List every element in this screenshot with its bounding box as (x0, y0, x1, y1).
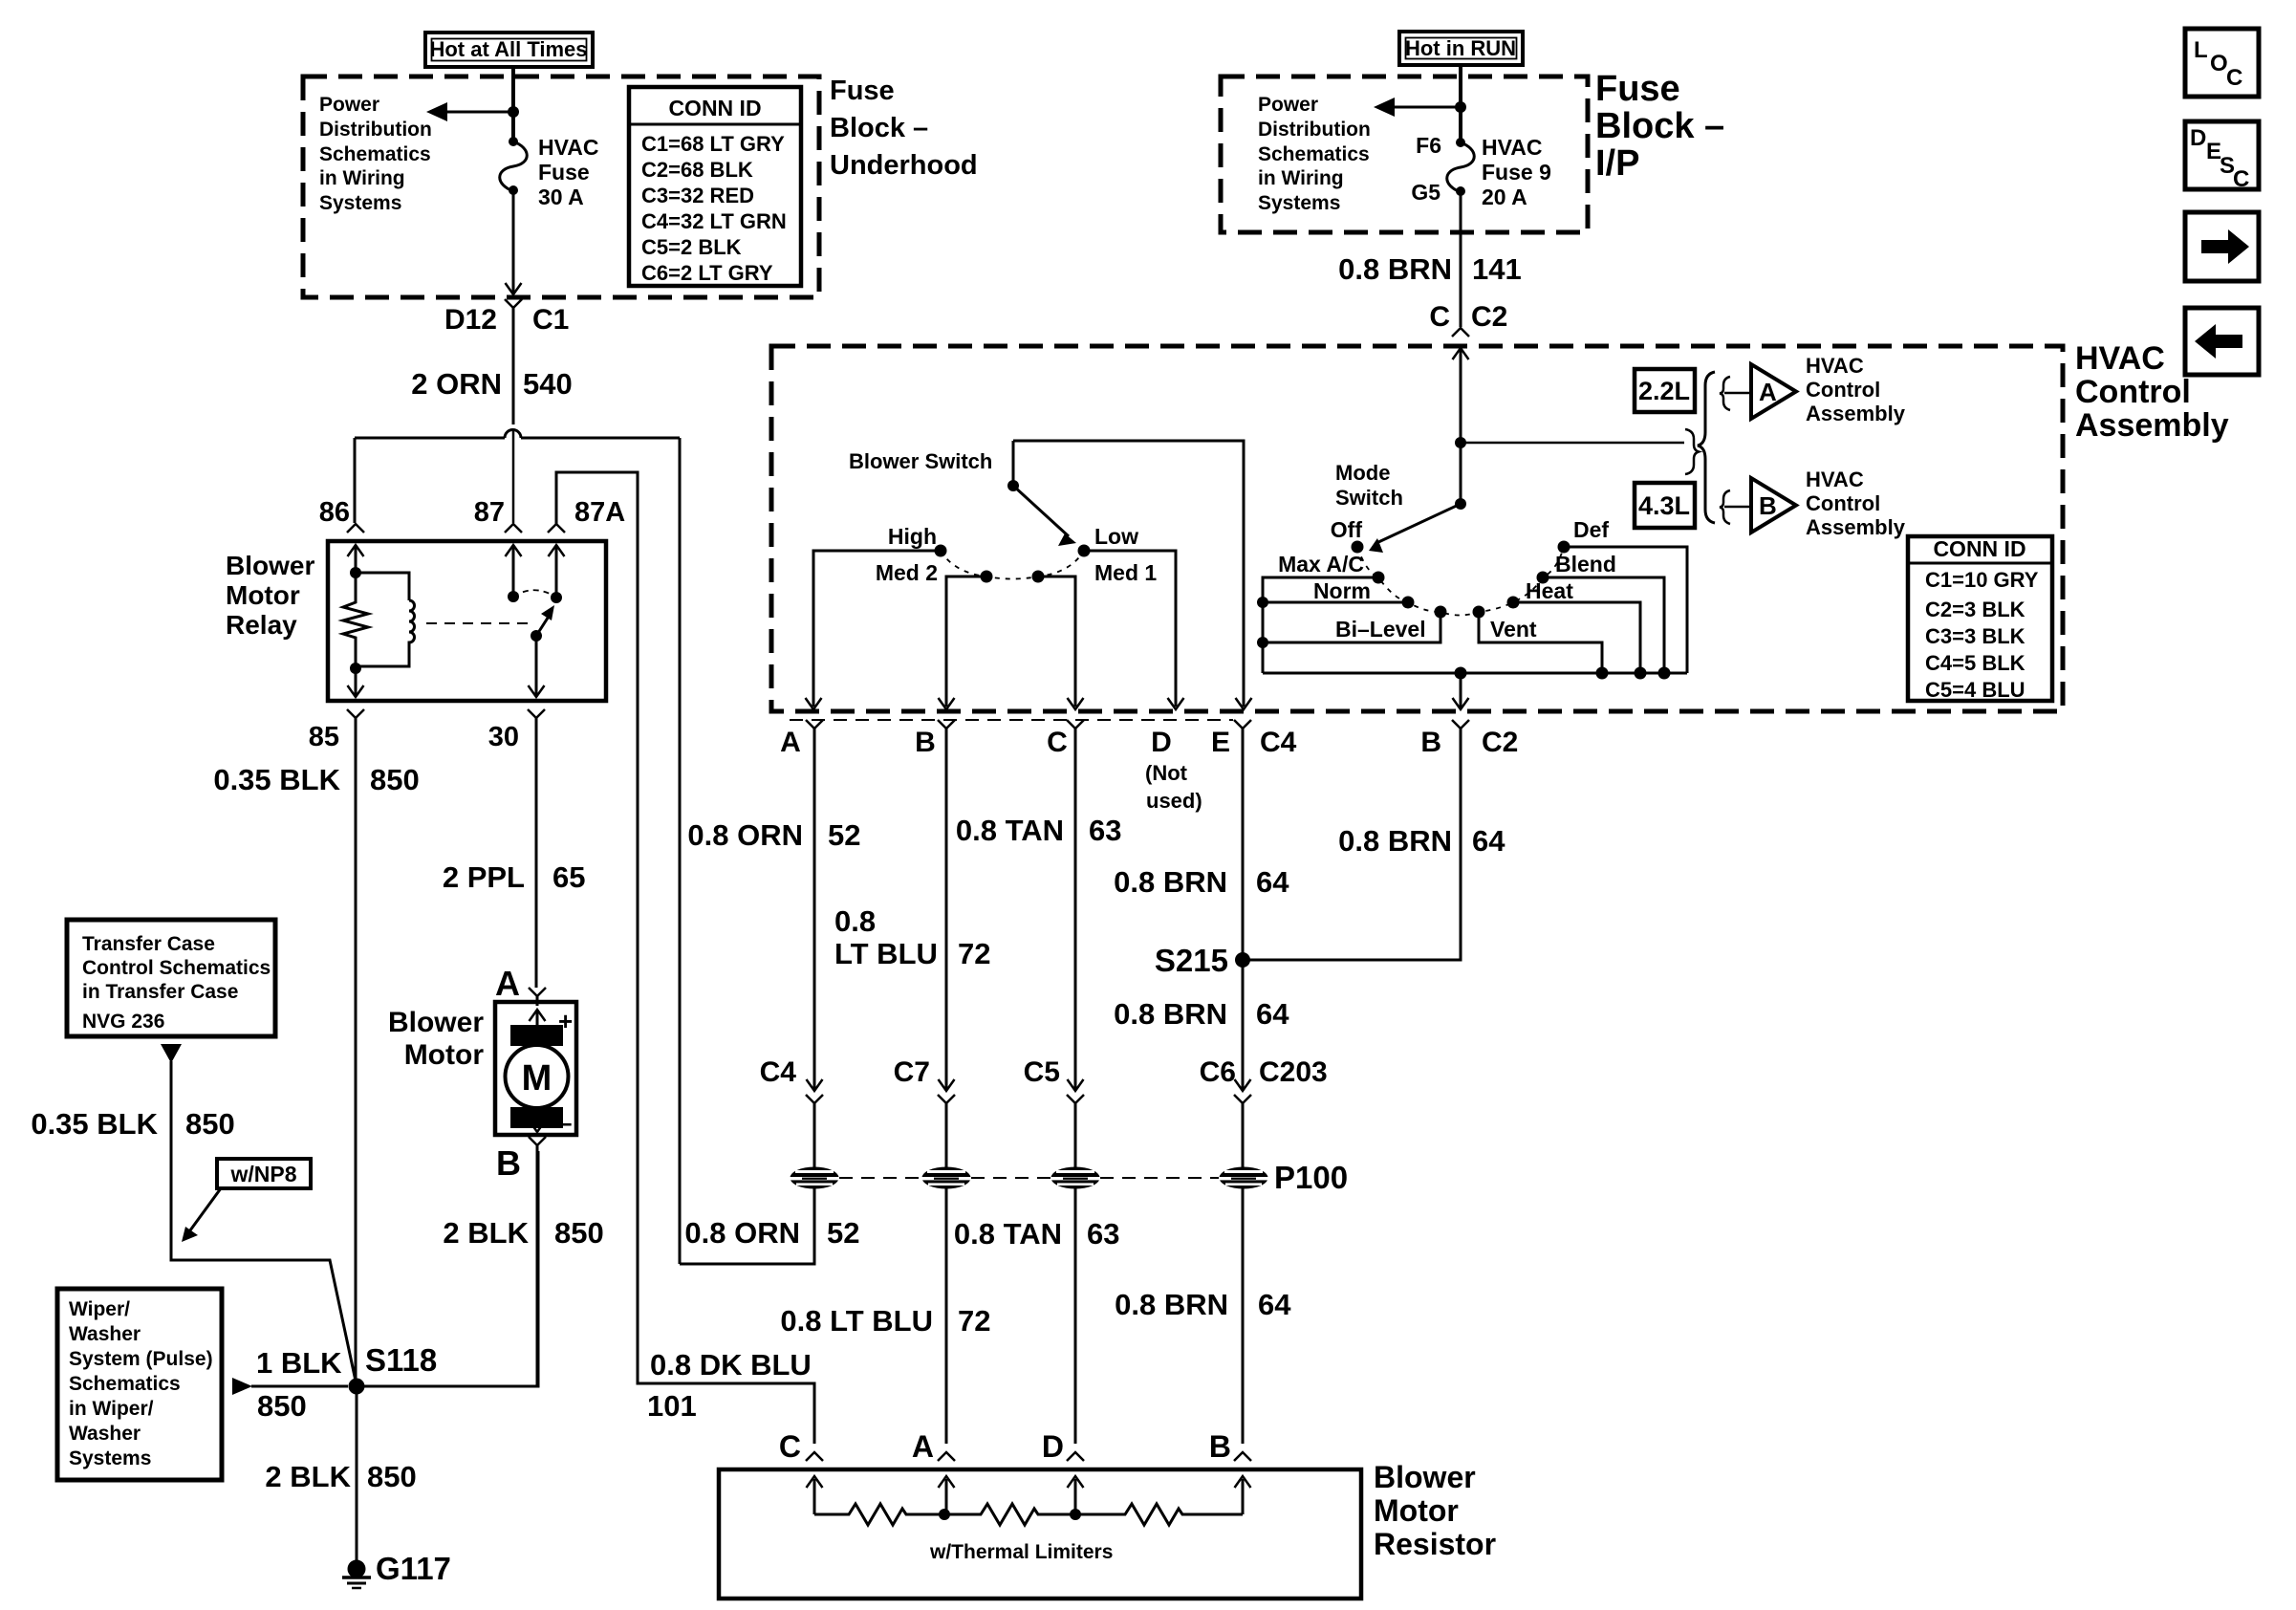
svg-text:Power: Power (1258, 94, 1318, 116)
wire Low to pin D (1084, 551, 1176, 707)
motor brush top (510, 1025, 563, 1046)
svg-text:0.8 BRN: 0.8 BRN (1115, 1288, 1228, 1321)
svg-text:Assembly: Assembly (1806, 515, 1906, 539)
small brace at triangle B (1720, 490, 1730, 524)
svg-text:Power: Power (319, 94, 379, 116)
connector C4 inline (807, 1079, 823, 1091)
node Bi-Level join (1257, 637, 1268, 648)
svg-text:P100: P100 (1274, 1160, 1348, 1195)
wire pin A down (0.8 ORN 52) (813, 729, 816, 1089)
motor brush bottom (510, 1107, 563, 1128)
svg-text:87: 87 (474, 497, 505, 528)
svg-text:1 BLK: 1 BLK (256, 1346, 342, 1380)
blower switch arm arrow (1013, 486, 1069, 536)
resistor R2 (944, 1504, 1075, 1525)
fuse HVAC Fuse 9 20A (1456, 138, 1465, 147)
node mode switch arm pivot (1455, 498, 1466, 510)
fuse F HVAC Fuse 30A (509, 137, 518, 146)
svg-text:System (Pulse): System (Pulse) (69, 1348, 213, 1370)
wire fuse output (512, 190, 515, 293)
wire Bi-Level to bus (1263, 612, 1440, 642)
svg-text:C1=68 LT GRY: C1=68 LT GRY (641, 132, 785, 156)
resistor R1 (814, 1504, 944, 1525)
buffer triangle B (1751, 478, 1796, 533)
resistor internal pin arrows (813, 1479, 816, 1514)
label box w/NP8 (217, 1159, 311, 1188)
node resistor taps (939, 1509, 950, 1520)
svg-text:B: B (1759, 491, 1777, 520)
svg-text:C6=2 LT GRY: C6=2 LT GRY (641, 261, 773, 285)
connector C/C2 (1452, 328, 1469, 337)
fuse block underhood dashed box (303, 76, 819, 297)
ground G117 (348, 1560, 366, 1578)
svg-text:0.8 TAN: 0.8 TAN (954, 1217, 1062, 1251)
svg-text:O: O (2210, 51, 2228, 76)
wire arrow to power distribution (right) (1389, 106, 1461, 109)
svg-text:C3=3 BLK: C3=3 BLK (1925, 624, 2025, 648)
wire to engine-option brace (1461, 442, 1684, 445)
svg-text:30: 30 (488, 722, 519, 752)
svg-text:Norm: Norm (1313, 578, 1371, 603)
svg-text:0.8 BRN: 0.8 BRN (1338, 824, 1452, 858)
connector dashed line C4 (790, 719, 1233, 721)
node Norm join (1257, 597, 1268, 608)
svg-text:52: 52 (828, 818, 860, 852)
svg-text:C5=2 BLK: C5=2 BLK (641, 235, 742, 259)
relay coil winding (356, 573, 409, 600)
wire feed from Hot in RUN (1459, 65, 1462, 140)
svg-text:Heat: Heat (1526, 578, 1573, 603)
wire A below splice to feed loop (680, 1188, 814, 1264)
svg-text:–: – (558, 1108, 572, 1137)
svg-text:C6: C6 (1200, 1056, 1236, 1088)
svg-text:C4=5 BLK: C4=5 BLK (1925, 651, 2025, 675)
pin D connector (resistor) (1067, 1452, 1084, 1461)
pin A connector (resistor) (938, 1452, 955, 1461)
node coil top (350, 567, 361, 578)
pin B connector (resistor) (1234, 1452, 1251, 1461)
svg-text:G117: G117 (376, 1551, 451, 1586)
svg-text:86: 86 (319, 497, 350, 528)
svg-text:C1=10 GRY: C1=10 GRY (1925, 568, 2039, 592)
relay pin 86 internal with up arrow (355, 545, 357, 573)
wire stub to buffer A (1724, 392, 1750, 395)
pin C connector (resistor) (806, 1452, 823, 1461)
wire blower switch feed (1013, 441, 1244, 707)
svg-text:C2: C2 (1482, 727, 1518, 758)
big opening brace (1698, 372, 1715, 523)
svg-text:LT BLU: LT BLU (834, 937, 938, 970)
wire arrow to power distribution schematics (442, 111, 513, 114)
pin B connector (HVAC C2) (1452, 720, 1469, 729)
wire stub to buffer B (1724, 506, 1750, 509)
arrow from wiper/washer (1 BLK 850 feed) (232, 1378, 252, 1395)
svg-text:A: A (780, 727, 801, 758)
svg-text:0.8 LT BLU: 0.8 LT BLU (780, 1304, 933, 1338)
node junction (I/P) (1455, 101, 1466, 113)
pin E connector (HVAC C4) (1234, 720, 1251, 729)
svg-text:Resistor: Resistor (1374, 1527, 1496, 1561)
svg-text:C: C (2233, 166, 2249, 192)
svg-text:Max A/C: Max A/C (1278, 552, 1364, 577)
svg-text:Wiper/: Wiper/ (69, 1298, 130, 1320)
svg-text:64: 64 (1256, 997, 1289, 1031)
svg-text:2 ORN: 2 ORN (411, 367, 502, 401)
wire pin B down (0.8 LT BLU 72) (945, 729, 948, 1089)
svg-text:in Wiring: in Wiring (1258, 167, 1344, 189)
svg-text:Hot at All Times: Hot at All Times (429, 37, 587, 61)
relay switch arm (536, 612, 552, 636)
relay pin 87 internal (512, 545, 515, 597)
svg-text:0.8: 0.8 (834, 904, 876, 938)
svg-text:M: M (522, 1058, 552, 1099)
svg-text:85: 85 (309, 722, 339, 752)
svg-text:72: 72 (958, 1304, 990, 1338)
svg-text:Block –: Block – (1595, 106, 1724, 146)
svg-text:C4=32 LT GRN: C4=32 LT GRN (641, 209, 787, 233)
wire E below splice (1242, 1188, 1245, 1444)
svg-text:850: 850 (367, 1460, 417, 1493)
pin C connector (HVAC C4) (1067, 720, 1084, 729)
svg-text:Relay: Relay (226, 610, 297, 640)
svg-text:0.8 BRN: 0.8 BRN (1338, 252, 1452, 286)
svg-text:C: C (2226, 65, 2242, 91)
wire Blend to bus (1543, 577, 1664, 673)
svg-text:65: 65 (552, 860, 585, 894)
svg-text:Med 1: Med 1 (1094, 560, 1157, 585)
wire C to splice (1074, 1103, 1077, 1168)
svg-text:Control: Control (1806, 491, 1880, 515)
svg-text:used): used) (1146, 789, 1202, 813)
svg-text:0.35 BLK: 0.35 BLK (213, 763, 340, 796)
arrow from w/NP8 box (187, 1188, 221, 1234)
svg-text:Def: Def (1573, 517, 1609, 542)
mode switch arm arrow (1376, 504, 1461, 543)
svg-text:2.2L: 2.2L (1638, 377, 1690, 405)
relay pin 87A internal (555, 545, 558, 598)
node bus joins (1455, 667, 1467, 680)
pin 85 connector (347, 709, 364, 718)
blower switch dashed arc (941, 551, 1084, 579)
node S118 (349, 1379, 365, 1395)
arrow from transfer case note (161, 1044, 182, 1063)
wire Def to bus (1564, 547, 1687, 673)
wire fuse 9 output 0.8 BRN 141 (1460, 191, 1462, 327)
relay pin 30 internal (535, 636, 538, 695)
pin 87A connector (548, 524, 565, 533)
motor armature circle M (506, 1045, 569, 1108)
connector D12/C1 (505, 299, 522, 308)
contact Max A/C (1373, 572, 1385, 584)
svg-text:C: C (1429, 301, 1450, 333)
svg-text:850: 850 (370, 763, 420, 796)
wire Norm to bus (1263, 601, 1408, 604)
svg-text:Underhood: Underhood (830, 150, 978, 181)
svg-text:High: High (888, 524, 937, 549)
svg-text:C2=3 BLK: C2=3 BLK (1925, 598, 2025, 621)
svg-text:F6: F6 (1416, 133, 1441, 158)
svg-text:Systems: Systems (69, 1447, 151, 1469)
contact Heat (1507, 597, 1520, 609)
svg-text:w/NP8: w/NP8 (229, 1162, 296, 1186)
motor internal up arrow (536, 1010, 539, 1027)
svg-text:(Not: (Not (1145, 761, 1188, 785)
splice P100 on E wire (1220, 1167, 1268, 1189)
wire 86-to-85 through coil (355, 668, 357, 695)
relay contact dashed arc (513, 590, 556, 598)
connector C5 inline (1068, 1079, 1084, 1091)
wire S215 down (1242, 960, 1245, 1089)
relay box (328, 541, 606, 701)
svg-text:C2: C2 (1471, 301, 1507, 333)
svg-text:HVAC: HVAC (538, 135, 598, 160)
svg-text:A: A (1759, 378, 1777, 406)
svg-text:C2=68 BLK: C2=68 BLK (641, 158, 753, 182)
svg-text:Blower Switch: Blower Switch (849, 449, 992, 473)
wire 0.35 BLK 850 (transfer case leg) (171, 1061, 357, 1385)
svg-text:141: 141 (1472, 252, 1522, 286)
node coil bottom (350, 663, 361, 674)
wire C below splice (1074, 1188, 1077, 1444)
table CONN ID (HVAC assembly) (1908, 536, 2052, 701)
svg-text:850: 850 (257, 1389, 307, 1423)
splice P100 on A wire (791, 1167, 839, 1189)
svg-text:Blower: Blower (1374, 1460, 1476, 1494)
svg-text:A: A (912, 1429, 934, 1464)
pin 30 connector (528, 709, 545, 718)
label box Hot at All Times (425, 33, 593, 67)
svg-text:L: L (2194, 37, 2208, 63)
svg-text:Washer: Washer (69, 1323, 141, 1345)
wire mode output drop (1460, 673, 1462, 707)
svg-text:in Transfer Case: in Transfer Case (82, 981, 238, 1003)
svg-text:87A: 87A (574, 497, 625, 528)
blower motor box (495, 1002, 576, 1135)
contact Med 2 (981, 571, 993, 583)
engine option 4.3L box (1635, 483, 1695, 528)
svg-text:A: A (495, 964, 520, 1003)
wire 87A loop (0.8 DK BLU 101) (556, 472, 814, 1444)
wire S215 branch to B/C2 (1243, 729, 1461, 960)
svg-text:Off: Off (1331, 517, 1363, 542)
pin 87 connector (505, 524, 522, 533)
svg-text:B: B (496, 1143, 521, 1183)
connector C7 inline (939, 1079, 955, 1091)
node junction to power distribution (508, 106, 519, 118)
note box Transfer Case Control Schematics (67, 920, 275, 1036)
svg-text:Fuse: Fuse (538, 160, 590, 185)
svg-text:Switch: Switch (1335, 486, 1403, 510)
svg-text:HVAC: HVAC (1482, 135, 1542, 160)
svg-text:Schematics: Schematics (69, 1373, 181, 1395)
contact Def (1558, 541, 1570, 554)
wire S118 to G117 (2 BLK 850) (356, 1386, 358, 1569)
node S215 (1235, 952, 1250, 968)
wire common stub (1012, 441, 1015, 486)
svg-text:0.35 BLK: 0.35 BLK (31, 1107, 158, 1141)
connector C6/C203 inline (1235, 1079, 1251, 1091)
wire Med 1 to pin C (1038, 577, 1075, 707)
wire drop to relay 87 (512, 430, 515, 523)
svg-text:Bi–Level: Bi–Level (1335, 617, 1426, 642)
splice P100 on B wire (922, 1167, 971, 1189)
node mode switch feed junction (1455, 437, 1466, 448)
pin A connector (HVAC C4) (806, 720, 823, 729)
svg-text:C4: C4 (1260, 727, 1297, 758)
svg-text:HVAC: HVAC (1806, 354, 1864, 378)
splice P100 on C wire (1051, 1167, 1100, 1189)
node blower switch common (1007, 480, 1019, 491)
svg-text:Low: Low (1094, 524, 1138, 549)
svg-text:0.8 BRN: 0.8 BRN (1114, 865, 1227, 899)
small closing brace (1685, 429, 1699, 474)
svg-text:Motor: Motor (404, 1039, 485, 1071)
svg-text:C: C (1047, 727, 1068, 758)
wire feed from Hot at All Times (511, 67, 515, 140)
contact Bi-Level (1435, 606, 1447, 619)
svg-text:C: C (779, 1429, 801, 1464)
svg-text:850: 850 (554, 1216, 604, 1250)
svg-text:C4: C4 (760, 1056, 797, 1088)
wire B below splice (945, 1188, 948, 1444)
wire motor B down (2 BLK 850) (536, 1145, 539, 1386)
note box Wiper/Washer System Schematics (57, 1289, 222, 1480)
arrow into box edge (down) (506, 283, 522, 294)
svg-text:B: B (915, 727, 936, 758)
svg-text:Blower: Blower (388, 1007, 484, 1038)
svg-text:0.8 TAN: 0.8 TAN (956, 814, 1064, 847)
mode switch dashed arc (1357, 547, 1564, 616)
pin B connector (HVAC C4) (938, 720, 955, 729)
pin B connector (blower motor) (529, 1137, 546, 1145)
wire A to splice (813, 1103, 816, 1168)
svg-text:Fuse: Fuse (830, 76, 895, 106)
svg-text:20 A: 20 A (1482, 185, 1527, 209)
svg-text:S118: S118 (365, 1342, 437, 1378)
wire Max A/C to bus (1263, 577, 1378, 673)
svg-text:Hot in RUN: Hot in RUN (1405, 36, 1516, 60)
svg-text:C5: C5 (1024, 1056, 1060, 1088)
svg-text:in Wiring: in Wiring (319, 167, 405, 189)
dashed mechanical link (426, 622, 532, 624)
svg-text:w/Thermal Limiters: w/Thermal Limiters (929, 1541, 1113, 1563)
contact Med 1 (1032, 571, 1045, 583)
fuse block I/P dashed box (1221, 76, 1588, 232)
small brace at triangle A (1720, 377, 1730, 410)
wire pin C down (0.8 TAN 63) (1074, 729, 1077, 1089)
resistor R3 (1075, 1504, 1243, 1525)
svg-text:E: E (1211, 727, 1230, 758)
icon box DESC (2185, 121, 2259, 189)
label box Hot in RUN (1399, 32, 1523, 65)
svg-text:HVAC: HVAC (2075, 340, 2165, 377)
icon box right-arrow (2185, 212, 2259, 281)
engine option 2.2L box (1635, 369, 1695, 412)
svg-text:Distribution: Distribution (319, 119, 432, 141)
contact Blend (1537, 572, 1549, 584)
motor internal down arrow (536, 1111, 539, 1128)
wire mode switch feed drop (1460, 443, 1462, 504)
wire branch to relay 86 (354, 438, 357, 523)
table CONN ID (underhood) (629, 87, 801, 286)
wire pin E down (0.8 BRN 64) (1242, 729, 1245, 954)
svg-text:Blower: Blower (226, 551, 314, 580)
icon box LOC (2185, 29, 2259, 97)
blower motor resistor box (719, 1469, 1361, 1599)
wire Med 2 to pin B (946, 577, 986, 707)
wire branch right (to 0.8 ORN 52 loop) (679, 438, 682, 1264)
svg-text:Assembly: Assembly (2075, 407, 2229, 444)
svg-text:Vent: Vent (1490, 617, 1537, 642)
svg-text:D: D (1151, 727, 1172, 758)
svg-text:I/P: I/P (1595, 143, 1639, 184)
icon box left-arrow (2185, 308, 2259, 375)
svg-text:in Wiper/: in Wiper/ (69, 1398, 154, 1420)
svg-text:Distribution: Distribution (1258, 119, 1371, 141)
buffer triangle A (1751, 364, 1796, 419)
wire relay 30 to blower motor (2 PPL 65) (535, 718, 538, 988)
dashed splice links (839, 1177, 921, 1179)
svg-text:Washer: Washer (69, 1423, 141, 1445)
svg-text:Motor: Motor (1374, 1493, 1459, 1528)
svg-text:30 A: 30 A (538, 185, 584, 209)
wire C2 entry with up arrow (1460, 348, 1462, 443)
contact Vent (1473, 606, 1485, 619)
wire Heat to bus (1513, 602, 1640, 673)
svg-text:Control Schematics: Control Schematics (82, 957, 271, 979)
svg-text:NVG 236: NVG 236 (82, 1011, 164, 1033)
wire 2 ORN 540 (512, 308, 515, 424)
svg-text:C7: C7 (894, 1056, 930, 1088)
svg-text:C1: C1 (532, 304, 569, 336)
wire S118 to blower motor return (357, 1151, 538, 1386)
svg-text:0.8 BRN: 0.8 BRN (1114, 997, 1227, 1031)
svg-text:C203: C203 (1259, 1056, 1328, 1088)
svg-text:Systems: Systems (1258, 192, 1340, 214)
wire mode output bus (1263, 672, 1687, 675)
svg-text:Control: Control (2075, 374, 2191, 410)
svg-text:2 BLK: 2 BLK (265, 1460, 351, 1493)
svg-text:52: 52 (827, 1216, 859, 1250)
wire Vent to bus (1479, 612, 1602, 673)
svg-text:63: 63 (1089, 814, 1121, 847)
wire into motor (536, 996, 539, 1006)
wire horizontal feed with hop (355, 437, 505, 440)
svg-text:D12: D12 (444, 304, 497, 336)
svg-text:2 PPL: 2 PPL (443, 860, 525, 894)
svg-text:Fuse: Fuse (1595, 69, 1680, 109)
svg-text:Systems: Systems (319, 192, 401, 214)
relay coil resistor (zigzag) (343, 573, 368, 669)
wire 85 to S118 (0.35 BLK 850) (355, 718, 357, 1386)
svg-text:4.3L: 4.3L (1638, 491, 1690, 520)
svg-text:D: D (1042, 1429, 1064, 1464)
svg-text:C3=32 RED: C3=32 RED (641, 184, 754, 207)
wire E to splice (1242, 1103, 1245, 1168)
svg-text:HVAC: HVAC (1806, 468, 1864, 491)
svg-text:0.8 ORN: 0.8 ORN (687, 818, 803, 852)
svg-text:Mode: Mode (1335, 461, 1390, 485)
HVAC control assembly dashed box (771, 346, 2063, 711)
svg-text:Blend: Blend (1555, 552, 1616, 577)
svg-text:G5: G5 (1411, 180, 1440, 205)
svg-text:64: 64 (1256, 865, 1289, 899)
contact High (935, 545, 947, 557)
svg-text:Schematics: Schematics (319, 143, 431, 165)
svg-text:850: 850 (185, 1107, 235, 1141)
svg-text:D: D (2190, 125, 2206, 151)
svg-text:0.8 DK BLU: 0.8 DK BLU (650, 1348, 812, 1382)
